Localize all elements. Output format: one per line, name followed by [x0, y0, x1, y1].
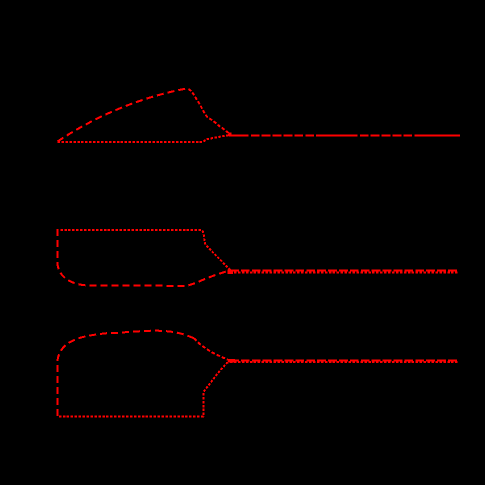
dotted upper bound — [60, 230, 230, 270]
overlap solid segments — [316, 135, 351, 137]
dashed upper bound curve — [58, 88, 188, 141]
right long-dash line — [229, 135, 460, 137]
right long-dash line — [230, 360, 458, 362]
dashed upper bound descent — [194, 338, 230, 360]
dashed upper bound — [57, 331, 194, 416]
right dotted line — [230, 361, 458, 363]
right dotted line — [230, 272, 459, 274]
right long-dash line — [230, 270, 459, 272]
junction blob — [229, 133, 232, 137]
dashed upper bound descent — [189, 89, 232, 135]
junction blob — [228, 359, 235, 362]
junction blob — [228, 269, 234, 274]
dotted lower bound — [58, 135, 232, 142]
dotted lower bound — [59, 361, 231, 417]
dashed lower bound — [58, 229, 232, 286]
